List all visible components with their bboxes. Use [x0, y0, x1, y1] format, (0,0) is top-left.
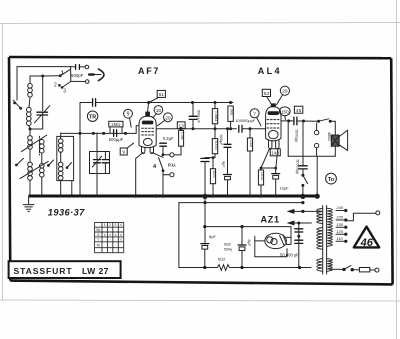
svg-text:x: x	[109, 233, 111, 237]
circle TR	[87, 111, 97, 121]
transformer winding left G3	[317, 259, 322, 272]
speaker	[327, 130, 348, 150]
callout circle 7	[250, 109, 261, 126]
tuned circuit box with trimmers	[90, 152, 110, 174]
svg-text:9: 9	[122, 150, 125, 156]
label 6ohm8 50Hy	[224, 243, 232, 252]
junction dots anode wire	[180, 127, 233, 130]
wires output terminals	[316, 123, 318, 156]
svg-text:x: x	[120, 238, 122, 242]
grid resistor x250	[247, 127, 253, 196]
svg-text:0,4MΩ: 0,4MΩ	[214, 111, 218, 122]
svg-text:20: 20	[165, 115, 171, 121]
capacitors 50000pF stack	[295, 222, 303, 268]
svg-text:x: x	[115, 233, 117, 237]
svg-text:TR: TR	[89, 114, 96, 120]
svg-text:Tb: Tb	[96, 243, 100, 247]
wire x179 down	[178, 203, 180, 268]
transformer winding left G1	[317, 209, 322, 224]
svg-text:1936·37: 1936·37	[48, 207, 85, 217]
svg-text:150: 150	[336, 222, 343, 227]
electrolytic 8uF no1	[201, 234, 217, 268]
cathode resistor 150ohm	[258, 167, 264, 196]
wire L1-L2	[29, 97, 30, 107]
callout square 9	[120, 143, 133, 155]
switch 4 wave/PU	[153, 153, 170, 195]
svg-text:143: 143	[271, 150, 279, 155]
callout oval 150	[279, 107, 290, 120]
svg-text:500μF: 500μF	[219, 135, 223, 147]
svg-text:0,2μF: 0,2μF	[163, 136, 174, 141]
HT rail y226.6	[203, 225, 291, 228]
wires AZ1 filament loop	[255, 236, 287, 257]
callout circle 29	[277, 86, 290, 105]
wire loop to bus x317	[316, 156, 318, 196]
svg-text:480Ω: 480Ω	[327, 132, 331, 141]
voltage taps	[336, 209, 347, 243]
coil L3	[28, 129, 33, 149]
grid line wire y133	[61, 126, 139, 134]
switch contact 3	[61, 81, 71, 94]
svg-text:x: x	[120, 233, 122, 237]
terminal PU lower	[170, 173, 174, 177]
vertical wire x80	[79, 103, 81, 196]
resistor chain x215 box2	[205, 139, 218, 159]
wire antenna top	[17, 66, 71, 68]
callout square 53	[262, 89, 271, 104]
tube AL4 pins	[269, 141, 280, 149]
trimmer arrow L5-L6	[20, 161, 48, 178]
svg-text:0,3M: 0,3M	[249, 140, 253, 148]
component table	[95, 223, 124, 253]
svg-text:3: 3	[63, 88, 66, 94]
antenna arrow symbol	[89, 69, 104, 81]
wire AF7 pin to switch	[152, 152, 163, 157]
coil L5	[28, 149, 33, 180]
svg-text:4μF: 4μF	[221, 161, 225, 168]
mains terminal	[376, 211, 380, 215]
junction dots on bus	[147, 101, 232, 104]
wire L2 bottom to node	[29, 123, 43, 130]
svg-text:STASSFURT: STASSFURT	[14, 266, 73, 276]
switch S1 left	[13, 67, 22, 110]
wire tuned box to grid line	[96, 133, 98, 152]
contact near L8	[66, 163, 72, 196]
table marks	[96, 223, 122, 247]
circle To	[326, 173, 337, 184]
coil L6	[40, 153, 45, 177]
output terminal lower	[314, 143, 318, 147]
wire AF7 cathode to bus	[136, 152, 144, 195]
switch contact 2	[54, 83, 61, 89]
svg-text:G: G	[97, 233, 100, 237]
coil L1 antenna	[28, 84, 33, 98]
coupling capacitor 100000uuF	[235, 118, 265, 132]
svg-text:61: 61	[159, 92, 165, 98]
ground bus thick	[29, 195, 318, 198]
junction dots on grid line	[79, 132, 128, 135]
variable capacitor C-tune	[35, 106, 50, 123]
anode wire AF7 to coupling	[156, 128, 236, 130]
capacitor in bus near TR	[93, 99, 96, 106]
anode wire AL4 output	[281, 120, 293, 122]
tube AF7	[139, 103, 156, 148]
band switch contacts left	[15, 158, 24, 166]
callout square 143	[270, 149, 280, 156]
capacitor 500pF antenna	[71, 65, 85, 79]
svg-text:5000: 5000	[212, 171, 216, 179]
switch output	[319, 119, 336, 135]
tube AF7 pins	[142, 147, 154, 153]
svg-text:AZ1: AZ1	[261, 215, 280, 225]
svg-text:4: 4	[120, 223, 122, 227]
svg-text:500pF: 500pF	[71, 73, 84, 78]
terminal PU upper	[170, 153, 174, 157]
dashed core line L3-L4	[38, 136, 40, 155]
svg-text:50Hy: 50Hy	[224, 248, 232, 252]
electrolytic 10uF	[272, 167, 289, 196]
transformer winding right secondary	[327, 208, 332, 246]
title box STASSFURT LW 27	[9, 261, 121, 278]
svg-text:150Ω: 150Ω	[260, 172, 264, 181]
resistor 2M	[109, 121, 123, 133]
svg-text:8μF: 8μF	[209, 234, 217, 239]
capacitor 0,2uF	[160, 143, 167, 154]
svg-text:LW 27: LW 27	[82, 266, 109, 276]
svg-text:50.000 pF: 50.000 pF	[280, 253, 299, 258]
svg-text:0,3M: 0,3M	[180, 132, 184, 140]
output terminal upper	[314, 130, 318, 134]
capacitor 50000uuF with switch	[296, 121, 308, 196]
node junction at 30,129	[29, 128, 32, 131]
svg-text:5000μμ: 5000μμ	[294, 130, 298, 142]
wire antenna drop	[70, 67, 72, 82]
svg-text:46: 46	[360, 237, 374, 249]
svg-text:50000μμ: 50000μμ	[296, 160, 300, 175]
svg-text:6Ω8: 6Ω8	[224, 243, 231, 247]
svg-text:220: 220	[335, 215, 343, 220]
callout circle 9a	[124, 109, 133, 127]
wires coils to ground bus	[30, 177, 42, 196]
mains wire to terminal	[347, 213, 376, 221]
svg-text:1: 1	[104, 223, 106, 227]
mains switch	[330, 266, 359, 272]
svg-text:·: ·	[110, 238, 111, 242]
junction dots ground bus	[28, 194, 319, 199]
capacitor 500uuF x193	[189, 103, 200, 129]
svg-text:10μF: 10μF	[280, 185, 290, 190]
svg-text:x: x	[104, 233, 106, 237]
svg-text:9: 9	[127, 112, 130, 118]
warning triangle 46	[354, 227, 379, 250]
svg-text:AF7: AF7	[138, 66, 160, 76]
svg-text:Sk: Sk	[96, 228, 100, 232]
wire tuned box to bus	[96, 174, 98, 196]
svg-text:2MΩ: 2MΩ	[111, 122, 120, 127]
terminal A2	[85, 80, 89, 84]
coil L2	[27, 107, 32, 125]
coil L7	[58, 133, 63, 152]
heater winding arrow 2	[287, 221, 312, 226]
resistor chain x215 box1	[212, 103, 218, 139]
svg-text:T: T	[97, 238, 99, 242]
svg-text:6Ω2: 6Ω2	[218, 256, 226, 261]
shield box coils L7 L8	[57, 136, 74, 180]
tube AL4	[266, 103, 281, 140]
electrolytic 8uF no2	[238, 227, 251, 268]
wire to terminal A2	[71, 80, 86, 82]
terminal A1	[85, 65, 89, 69]
coil L8	[58, 152, 63, 195]
output return loop	[288, 121, 335, 156]
wires AZ1 anodes	[286, 227, 291, 245]
heater rail y202.6	[179, 201, 305, 204]
wire AL4 cathode pins down	[261, 149, 278, 170]
coil L4	[40, 139, 45, 153]
callout square 61	[150, 90, 166, 102]
tap labels	[335, 205, 343, 241]
heater winding arrow 1	[287, 209, 321, 214]
junction dots output wire	[287, 119, 320, 122]
wire x205 down to filter	[204, 196, 206, 243]
svg-text:240: 240	[335, 205, 343, 210]
svg-text:7: 7	[253, 111, 256, 117]
resistor zigzag 6ohm2	[218, 256, 230, 270]
svg-text:150: 150	[281, 109, 289, 114]
capacitor + electrolytic 4uF branch x227	[221, 129, 231, 196]
callout square 45	[294, 106, 302, 114]
callout square 13	[177, 122, 185, 130]
svg-text:P.U.: P.U.	[168, 162, 176, 167]
svg-text:110: 110	[336, 236, 343, 241]
capacitor 500uuF grid	[109, 130, 124, 142]
mains terminal 2	[375, 268, 379, 272]
screen resistor box x230	[228, 106, 234, 129]
svg-text:8μF: 8μF	[247, 240, 251, 247]
wire down to variable capacitor	[42, 76, 44, 111]
svg-text:500μμF: 500μμF	[109, 137, 124, 142]
fuse	[359, 268, 375, 272]
svg-text:AL4: AL4	[258, 66, 282, 76]
trimmer arrow L3-L4	[22, 135, 47, 152]
switch contact 1	[59, 70, 70, 78]
svg-text:16: 16	[156, 108, 162, 114]
wire junction to coil L1	[30, 76, 43, 83]
band switch contact mid	[47, 160, 54, 167]
svg-text:1MΩ: 1MΩ	[230, 108, 234, 116]
svg-text:125: 125	[336, 229, 343, 234]
decoupling capacitor x205	[201, 158, 209, 196]
transformer winding left G2	[317, 228, 322, 250]
resistor box3 x213	[210, 158, 216, 196]
svg-text:To: To	[328, 177, 335, 183]
B+ bus wire left segment	[80, 102, 92, 104]
wire to contact 1	[43, 75, 59, 77]
resistor box x181	[174, 129, 184, 155]
svg-text:45: 45	[296, 108, 302, 114]
node junction x42	[41, 75, 44, 78]
capacitor 5000pF tone	[294, 117, 319, 142]
schematic border frame	[9, 57, 393, 284]
tube AZ1 rectifier	[265, 233, 287, 248]
svg-text:2: 2	[54, 83, 57, 89]
svg-text:2: 2	[109, 223, 111, 227]
svg-text:500μμF: 500μμF	[196, 110, 200, 124]
transformer winding right lower	[327, 259, 332, 272]
mains transformer core	[323, 206, 327, 275]
B+ bus wire main	[97, 102, 233, 104]
ground symbol	[23, 196, 34, 211]
svg-text:3: 3	[115, 223, 117, 227]
svg-text:29: 29	[282, 89, 288, 95]
bottom rail	[179, 266, 311, 269]
callout circle 16	[153, 106, 163, 118]
svg-text:50000: 50000	[214, 141, 218, 151]
callout circle 20	[157, 113, 172, 126]
svg-text:100000μμF: 100000μμF	[235, 118, 255, 123]
